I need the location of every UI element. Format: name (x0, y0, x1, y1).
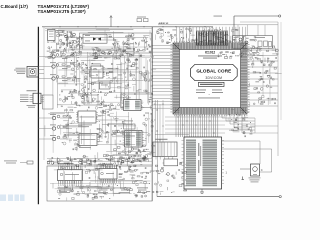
transistor Q103 (102, 51, 105, 54)
audio out band (47, 155, 153, 171)
antenna stub (110, 16, 112, 27)
IC1501 label below (59, 189, 69, 192)
jack J601 video input (27, 67, 39, 78)
top band wiring (52, 28, 150, 56)
transistor Q104 (109, 51, 112, 54)
left thick bus line (37, 27, 39, 205)
bottom long wire (157, 196, 279, 198)
svg-text:AUDIO 1/2: AUDIO 1/2 (159, 22, 170, 25)
mid-left cap bank (62, 113, 81, 151)
svg-text:C.Board (1/7): C.Board (1/7) (1, 4, 29, 9)
memory IC center text (198, 143, 199, 156)
small connector mark (242, 177, 244, 180)
resistors near Q603 (62, 76, 65, 77)
QFP IC1012 body (173, 43, 247, 114)
wires right mid horizontals (250, 125, 278, 127)
IC1302 label (79, 146, 91, 149)
QFP outer pin-number fuzz (170, 41, 249, 116)
bottom wire terminal circle (279, 196, 281, 198)
video detector row (48, 46, 132, 61)
transistor Q201 (239, 38, 242, 41)
wires memory IC to right (222, 141, 261, 164)
label rows under ICs (60, 187, 71, 190)
QFP left pin wires (152, 46, 173, 109)
center glue components (97, 104, 126, 162)
right mid vertical link (254, 118, 256, 133)
rail below IF box (45, 57, 150, 59)
bus crossing dots (178, 117, 215, 134)
center vertical frame line (151, 27, 153, 201)
transistor stage Q601 (52, 55, 55, 58)
right of QFP parts (250, 46, 282, 106)
left frame edge (43, 27, 45, 160)
wires connector to board (41, 94, 44, 96)
tuner label (57, 29, 65, 32)
parts below DIPs (57, 185, 150, 201)
bus horizontal crossings (165, 117, 248, 133)
IC IC1501 (58, 170, 83, 181)
IF section box (80, 33, 152, 53)
crystal X1101 (124, 124, 136, 129)
IC1201 label (91, 63, 100, 66)
junction dots top rail (60, 26, 206, 27)
svg-text:→: → (207, 92, 210, 96)
short gray rail right (240, 21, 278, 23)
left of memory glue (152, 159, 189, 195)
parts right of IC1501 (85, 168, 100, 197)
lower-left dense parts (57, 89, 91, 113)
center wiring (98, 109, 151, 157)
QFP right pin wires (247, 50, 278, 106)
memory IC side stubs (182, 141, 225, 184)
sub box bottom right of IF (121, 94, 152, 108)
wire to top-right terminal (234, 15, 279, 17)
wire into crystal (240, 168, 251, 170)
resistors near Q601 (62, 54, 65, 55)
label LT20N right top (214, 15, 223, 18)
tuner periphery components (56, 30, 85, 49)
bottom box rail (50, 183, 150, 185)
lower-left sub box (43, 95, 54, 109)
left column wiring (53, 52, 81, 108)
bottom wire riser (156, 185, 158, 197)
IF block wiring (80, 52, 151, 105)
top rail 1 (45, 28, 152, 30)
faint blue watermark (0, 195, 25, 202)
bottom box wiring (53, 169, 150, 197)
bus cross rail (155, 134, 189, 136)
decoupling above QFP (156, 28, 245, 46)
filter box CF1201 (100, 82, 111, 89)
bottom-left section box (47, 166, 152, 201)
connector P601 (33, 93, 41, 104)
wire jack to board (39, 69, 44, 71)
transistor Q102 (73, 33, 76, 36)
sub box bottom left of IF (84, 95, 98, 105)
resistors near Q602 (62, 64, 65, 65)
small box near bus bottom (164, 159, 178, 166)
transistor Q1403 (160, 169, 163, 172)
IC IC1103 (125, 131, 143, 148)
IF block rail x124 (124, 56, 126, 108)
DIP IC1402 inner mark (101, 172, 104, 175)
main frame top edge (42, 26, 213, 28)
IC1501 inner marks (60, 173, 63, 176)
connector P601 label below (27, 104, 36, 107)
crystal label (249, 177, 261, 180)
shield module stubs below (155, 157, 157, 160)
jack J601 label (16, 67, 26, 70)
wire drops from gray rail (237, 25, 239, 36)
svg-text:C: C (261, 168, 263, 172)
band left of bus line (4, 160, 17, 163)
IC IC1402 (99, 169, 117, 180)
transistor Q1404 (167, 173, 170, 176)
right border outer (277, 22, 279, 156)
transistor stage Q605 (52, 127, 55, 130)
top right sub box (233, 36, 273, 49)
IC1501 label above (58, 162, 74, 165)
bus junction dots (155, 104, 164, 147)
svg-text:IC1012: IC1012 (205, 51, 216, 55)
transistor Q101 (65, 35, 68, 38)
DIP IC1402 label above (98, 163, 113, 166)
IC IC1101 eeprom (124, 100, 142, 111)
upper-right gray rail (158, 24, 278, 26)
right border inner (280, 22, 282, 120)
wire between DIPs (94, 155, 96, 169)
band rail 3 (47, 164, 152, 166)
below top-right box parts (218, 49, 264, 64)
IF rail horizontal y92 (83, 92, 152, 94)
IF amp components (108, 34, 151, 54)
resistor array RA101 (197, 32, 228, 46)
QFP corner diagonals (173, 43, 247, 114)
memory IC pin columns (186, 139, 196, 187)
inside top-right box parts (238, 36, 260, 52)
crystal unit X1401 (251, 164, 260, 176)
svg-text:GLOBAL CORE: GLOBAL CORE (196, 69, 231, 74)
bus vertical lines (154, 100, 156, 157)
QFP pin band ticks (173, 43, 247, 114)
IC IC1301 (78, 111, 96, 123)
IF dense parts lower (81, 80, 153, 110)
IC IC1302 reset (79, 134, 97, 146)
left mid components (70, 53, 87, 96)
right mid parts (228, 110, 252, 137)
wire drop from terminal rail (233, 16, 235, 36)
component pair above frame B101 (137, 19, 142, 22)
junction dots on center vertical (152, 46, 153, 132)
QFP bottom bus wires (176, 114, 218, 137)
transistor stage Q602 (52, 65, 55, 68)
QFP lower annotation (196, 89, 206, 92)
svg-text:3DVICOM: 3DVICOM (205, 76, 222, 80)
IF dense parts upper (81, 51, 156, 82)
relay parts in sub box (258, 41, 262, 47)
memory IC IC1102 body (184, 137, 222, 189)
ground below memory IC (201, 189, 203, 192)
SAW filter box (83, 34, 107, 43)
bottom rails above box (47, 158, 152, 160)
rail inside IF box (81, 46, 150, 48)
IC1201 sound processor (91, 66, 103, 78)
tuner box TU101 (48, 30, 56, 41)
left center wiring (45, 112, 96, 153)
IF block rail x128 (128, 56, 130, 110)
parts right of DIP (118, 168, 157, 189)
QFP top pin wires (177, 27, 246, 43)
transistor stage Q603 (52, 77, 55, 80)
tuner lower parts (47, 40, 82, 54)
QFP bottom right L wires (222, 114, 255, 133)
right vertical sub rails (262, 52, 264, 96)
QFP part number box (199, 82, 225, 86)
IF rail horizontal y56 (80, 55, 152, 57)
center right glue (143, 113, 156, 161)
transistor stage Q604 (52, 116, 55, 119)
resistor rails right of IF (135, 58, 137, 92)
top rail 2 (45, 30, 110, 32)
IF block rail x120 (120, 56, 122, 108)
svg-text:TSAMP01VJT5 (LT30*): TSAMP01VJT5 (LT30*) (38, 9, 87, 14)
shield module SH1101 (153, 142, 177, 157)
transistor stage Q606 (52, 137, 55, 140)
connector P601 label above (27, 89, 37, 92)
terminal circle top right (279, 15, 281, 17)
octagon GLOBAL CORE (191, 64, 238, 80)
below eeprom (124, 148, 149, 161)
IC1301 label (78, 124, 92, 127)
transistor Q202 (245, 41, 248, 44)
